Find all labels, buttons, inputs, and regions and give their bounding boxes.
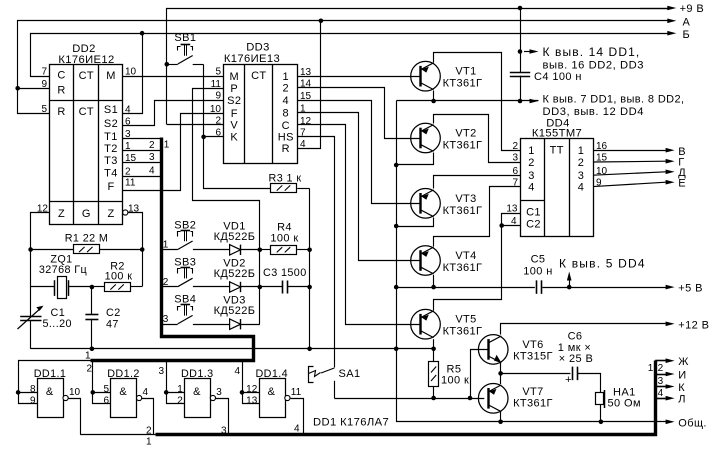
wire SB2 row left xyxy=(161,249,177,251)
label C1 xyxy=(51,307,66,319)
svg-text:+12 В: +12 В xyxy=(678,319,709,331)
label DD1.4 xyxy=(255,368,288,380)
svg-text:F: F xyxy=(107,181,114,193)
svg-text:10: 10 xyxy=(210,104,222,115)
wire VT6 emitter to VT7 xyxy=(500,363,502,384)
label SB1 xyxy=(174,32,196,44)
node C5 line join xyxy=(394,285,399,290)
svg-text:3: 3 xyxy=(216,387,222,398)
node C3 right xyxy=(307,285,312,290)
svg-text:C: C xyxy=(57,70,65,82)
svg-text:К176ИЕ13: К176ИЕ13 xyxy=(224,53,280,65)
arrow Общ output xyxy=(666,417,707,429)
svg-text:R3 1 к: R3 1 к xyxy=(269,173,302,185)
wire V net +9 to DD3.2 xyxy=(167,124,224,126)
wire К tap xyxy=(655,384,674,389)
transistor VT6 КТ315Г xyxy=(478,335,508,365)
svg-text:11: 11 xyxy=(291,387,302,398)
wire T3 to bus xyxy=(123,162,162,164)
label C1 5...20 xyxy=(43,318,72,330)
label VT1 xyxy=(455,66,476,78)
svg-text:5...20: 5...20 xyxy=(43,318,72,330)
label DD1.3 xyxy=(181,368,214,380)
capacitor C4 xyxy=(510,72,530,76)
pin DD2-3 xyxy=(125,129,131,140)
label VT6 xyxy=(522,339,543,351)
label к выв 7 line1 xyxy=(543,94,685,106)
svg-text:T4: T4 xyxy=(104,168,118,180)
pin DD3-5 xyxy=(215,67,221,78)
wire VT1 emitter to DD4 xyxy=(434,53,521,151)
svg-text:КТ361Г: КТ361Г xyxy=(443,205,483,217)
resistor R3 xyxy=(271,184,310,193)
wire base line R5-VT7 xyxy=(396,398,484,400)
svg-text:3: 3 xyxy=(163,314,169,325)
node R4 right xyxy=(307,248,312,253)
pin DD2-5 xyxy=(41,104,47,115)
wire SB4 row left xyxy=(161,324,177,326)
wire VD1 cathode xyxy=(241,249,260,251)
svg-text:КТ361Г: КТ361Г xyxy=(443,326,483,338)
label tap3 К xyxy=(658,376,664,387)
node A line to DD3 R xyxy=(319,19,324,24)
label DD2 xyxy=(72,43,96,55)
label DD3 left M P S2 F V K xyxy=(227,71,241,144)
pin DD1.3-3 xyxy=(216,387,222,398)
wire K net DD3.6 xyxy=(204,136,224,138)
svg-text:HS: HS xyxy=(278,131,294,143)
wire net B xyxy=(31,34,668,77)
label Ж xyxy=(678,356,689,368)
label bus tap 3 xyxy=(163,314,169,325)
svg-text:CT: CT xyxy=(251,70,266,82)
label tap 3 xyxy=(149,152,155,163)
svg-text:S2: S2 xyxy=(104,118,118,130)
wire к выв 5 arrow xyxy=(567,272,572,288)
wire VT5 collector xyxy=(433,339,435,349)
svg-text:Е: Е xyxy=(678,178,686,190)
label VD1 xyxy=(223,220,246,232)
svg-text:C1: C1 xyxy=(526,207,541,219)
pin DD1.2-5 xyxy=(103,384,109,395)
label Е xyxy=(678,178,686,190)
label VT4 КТ361Г xyxy=(443,262,483,274)
svg-text:С3 1500: С3 1500 xyxy=(263,267,307,279)
node R5 bottom xyxy=(431,396,436,401)
crystal ZQ1 xyxy=(31,277,92,299)
label К155ТМ7 xyxy=(532,128,582,140)
label VD3 xyxy=(223,295,246,307)
svg-text:7: 7 xyxy=(512,177,518,188)
svg-text:+: + xyxy=(565,374,572,386)
svg-text:КД522Б: КД522Б xyxy=(214,231,256,243)
svg-text:4: 4 xyxy=(294,424,300,435)
node VT4 collector xyxy=(431,285,436,290)
label out 1 xyxy=(146,437,152,448)
svg-text:11: 11 xyxy=(125,178,136,189)
svg-text:Ж: Ж xyxy=(678,356,689,368)
label HA1 50 Ом xyxy=(608,398,641,410)
wire DD1.4 input drop xyxy=(243,361,260,404)
pin DD2-10 xyxy=(125,67,137,78)
pin DD3-10 xyxy=(210,104,222,115)
gate DD1.3 box xyxy=(185,379,211,418)
wire R2 left xyxy=(92,286,104,288)
node crystal right xyxy=(90,285,95,290)
label 32768 Гц xyxy=(39,264,87,276)
capacitor C2 xyxy=(85,287,98,349)
wire VT2 collector xyxy=(397,153,434,165)
svg-text:3: 3 xyxy=(158,366,164,377)
label DD1.2 xyxy=(107,368,140,380)
wire DD1.3 output xyxy=(216,399,229,435)
svg-text:4: 4 xyxy=(528,181,535,193)
node +9V/C4 junction xyxy=(518,6,523,11)
label R4 xyxy=(277,222,292,234)
capacitor C6 xyxy=(573,367,578,381)
wire DD3.12 to VT5 base xyxy=(298,125,421,325)
node R1 left xyxy=(28,247,33,252)
label DD4 col3 1-4 xyxy=(578,145,585,193)
pin DD1.4-12 xyxy=(246,384,258,395)
svg-text:6: 6 xyxy=(512,166,518,177)
svg-text:КТ315Г: КТ315Г xyxy=(513,351,553,363)
svg-text:DD3, выв. 12 DD4: DD3, выв. 12 DD4 xyxy=(543,106,644,118)
svg-text:4: 4 xyxy=(578,181,585,193)
resistor R4 xyxy=(271,246,310,255)
svg-text:3: 3 xyxy=(578,170,585,182)
label DD1.4 & xyxy=(268,386,276,398)
pin DD3-6 xyxy=(215,128,221,139)
label к выв 14 line1 xyxy=(543,45,641,59)
wire VD2 cathode xyxy=(241,286,260,288)
resistor R5 xyxy=(429,349,439,398)
svg-text:R: R xyxy=(57,85,65,97)
node SB1 left contact xyxy=(165,62,170,67)
wire DD1.3 upper input xyxy=(166,392,185,394)
svg-text:12: 12 xyxy=(300,116,312,127)
svg-text:8: 8 xyxy=(283,107,290,119)
label bus tap 1 xyxy=(163,240,169,251)
svg-text:Л: Л xyxy=(678,393,686,405)
label Г xyxy=(678,157,684,169)
IC DD2 К176ИЕ12 box xyxy=(49,65,122,225)
wire DD4 C1 pin13 xyxy=(502,214,521,226)
arrow Б output xyxy=(667,29,690,41)
label DD4 C1 xyxy=(526,207,541,219)
svg-text:И: И xyxy=(678,369,686,381)
wire S1 net to B xyxy=(123,34,143,114)
svg-text:1: 1 xyxy=(578,145,585,157)
node K junction xyxy=(201,135,206,140)
wire VT7 collector xyxy=(500,412,502,422)
wire Ж tap xyxy=(655,358,674,363)
label R5 xyxy=(447,364,462,376)
pin DD2-12 xyxy=(37,204,49,215)
svg-text:1: 1 xyxy=(177,384,183,395)
svg-text:ТТ: ТТ xyxy=(550,145,564,157)
svg-text:5: 5 xyxy=(215,67,221,78)
svg-text:КТ361Г: КТ361Г xyxy=(443,262,483,274)
pin DD4-16 xyxy=(596,141,608,152)
label DD1.1 xyxy=(34,368,67,380)
capacitor C1 (trimmer) xyxy=(18,306,44,349)
svg-text:R: R xyxy=(57,106,65,118)
wire DD3.14 to VT2 base xyxy=(298,88,421,139)
sounder HA1 xyxy=(596,390,605,422)
svg-text:C: C xyxy=(282,120,290,132)
svg-text:2: 2 xyxy=(163,277,169,288)
wire VT4 collector xyxy=(433,275,435,287)
svg-text:2: 2 xyxy=(578,157,585,169)
svg-text:4: 4 xyxy=(143,387,149,398)
wire +12V line xyxy=(501,324,667,335)
svg-text:5: 5 xyxy=(103,384,109,395)
node VT1 collector xyxy=(431,99,436,104)
pin DD3-11 xyxy=(211,79,222,90)
label DD1.3 & xyxy=(193,386,201,398)
label tap 1 xyxy=(164,139,170,150)
wire C6 right xyxy=(578,374,601,393)
node DD1.1 pin8 xyxy=(16,390,21,395)
label tap 2 xyxy=(149,140,155,151)
svg-text:T3: T3 xyxy=(104,155,118,167)
node C1C2 junction xyxy=(499,223,504,228)
capacitor C5 xyxy=(537,280,542,294)
label DD2 CT top xyxy=(79,70,94,82)
label R3 1 к xyxy=(269,173,302,185)
arrow к выв.14 xyxy=(524,49,539,54)
label C5 xyxy=(531,254,546,266)
pin DD1.4-13 xyxy=(246,395,258,406)
label К176ИЕ13 xyxy=(224,53,280,65)
transistor VT7 КТ361Г xyxy=(478,384,508,414)
node VT3 collector join xyxy=(394,224,399,229)
label C6 25В xyxy=(559,353,594,365)
pin DD3-15 xyxy=(300,91,312,102)
transistor VT5 КТ361Г xyxy=(411,309,441,339)
label R2 xyxy=(110,260,125,272)
label SB2 xyxy=(174,219,196,231)
pin DD1.3-1 xyxy=(177,384,183,395)
label DD1.2 & xyxy=(119,386,127,398)
wire F net DD2.11-DD3.10 xyxy=(123,114,224,191)
svg-text:100 к: 100 к xyxy=(441,375,469,387)
resistor R2 xyxy=(105,283,143,292)
svg-text:CT: CT xyxy=(79,70,94,82)
svg-text:CT: CT xyxy=(79,106,94,118)
label VT1 КТ361Г xyxy=(443,78,483,90)
svg-text:SB1: SB1 xyxy=(174,32,196,44)
svg-text:+5 В: +5 В xyxy=(678,283,703,295)
wire DD3.7 HS to SA1 xyxy=(298,137,335,368)
label C6 plus xyxy=(565,374,572,386)
arrow А output xyxy=(667,16,690,28)
button SB3 xyxy=(178,268,193,287)
label wire 1 xyxy=(85,351,91,362)
arrow к выв.7 xyxy=(530,99,539,104)
svg-text:M: M xyxy=(230,71,240,83)
diode VD3 xyxy=(230,319,241,329)
button SB1 xyxy=(167,45,204,65)
pin DD4-2 xyxy=(512,141,518,152)
wire DD4 out Е xyxy=(593,180,675,187)
svg-text:А: А xyxy=(683,16,691,28)
svg-text:&: & xyxy=(46,386,54,398)
wire to DD1.1 inputs xyxy=(19,361,91,404)
svg-text:Б: Б xyxy=(683,29,691,41)
wire T2 to bus xyxy=(123,150,162,152)
svg-text:R: R xyxy=(282,143,290,155)
pin DD1.1-9 xyxy=(30,395,36,406)
wire +5V line xyxy=(543,287,667,289)
wire DD1.2 input drop xyxy=(93,361,111,404)
label wire 2 xyxy=(86,363,92,374)
pin DD1.2-6 xyxy=(103,395,109,406)
wire DD4 C2 pin4 xyxy=(502,225,521,227)
pin DD4-6 xyxy=(512,166,518,177)
svg-text:+9 В: +9 В xyxy=(680,3,705,15)
label DD1 К176ЛА7 xyxy=(313,417,389,429)
label к выв 14 line2 xyxy=(543,60,644,72)
node VD1 cathode xyxy=(258,248,263,253)
svg-text:9: 9 xyxy=(215,91,221,102)
svg-text:P: P xyxy=(230,83,238,95)
wire T4 to bus xyxy=(123,176,162,178)
resistor R1 xyxy=(74,245,143,254)
gate DD1.2 box xyxy=(111,379,137,418)
label R4 100 к xyxy=(270,232,298,244)
label ZQ1 xyxy=(50,254,72,266)
svg-text:12: 12 xyxy=(246,384,258,395)
node VD2 cathode xyxy=(258,285,263,290)
wire DD1.2 output xyxy=(142,399,154,435)
svg-text:4: 4 xyxy=(283,95,290,107)
svg-text:13: 13 xyxy=(246,395,258,406)
svg-text:2: 2 xyxy=(149,140,155,151)
label VT3 КТ361Г xyxy=(443,205,483,217)
svg-text:9: 9 xyxy=(30,395,36,406)
wire VT2 emitter xyxy=(434,115,521,163)
svg-text:&: & xyxy=(119,386,127,398)
wire DD1.2 upper input xyxy=(93,392,111,394)
transistor VT4 КТ361Г xyxy=(411,246,441,276)
svg-text:1: 1 xyxy=(163,240,169,251)
svg-text:выв. 16 DD2, DD3: выв. 16 DD2, DD3 xyxy=(543,60,644,72)
label к выв 7 line2 xyxy=(543,106,644,118)
label VT2 КТ361Г xyxy=(443,140,483,152)
svg-text:× 25 В: × 25 В xyxy=(559,353,594,365)
label Д xyxy=(678,167,686,179)
label tap 4 xyxy=(149,165,155,176)
pin DD4-10 xyxy=(596,166,608,177)
pin DD1.4 output bubble xyxy=(285,395,290,400)
label DD3 xyxy=(246,42,270,54)
svg-text:3: 3 xyxy=(221,426,227,437)
diode VD1 xyxy=(230,245,241,255)
label DD4 xyxy=(546,118,570,130)
svg-text:K: K xyxy=(230,132,238,144)
svg-text:2: 2 xyxy=(146,426,152,437)
diode VD2 xyxy=(230,282,241,292)
label C6 xyxy=(568,331,583,343)
arrow +5 В xyxy=(666,283,703,295)
wire DD4 out B xyxy=(593,148,675,153)
label C5 100 н xyxy=(523,266,552,278)
label DD2 S1 S2 T1-T4 F xyxy=(104,104,118,193)
switch SA1 xyxy=(309,367,335,399)
pin DD1.1-10 xyxy=(69,387,81,398)
node к выв 5 xyxy=(567,285,572,290)
label R2 100 к xyxy=(105,271,133,283)
svg-text:DD1.1: DD1.1 xyxy=(34,368,67,380)
node R1 right xyxy=(140,247,145,252)
svg-text:3: 3 xyxy=(528,170,535,182)
wire R1 left lead xyxy=(31,249,73,251)
node R3R4C3 column bottom xyxy=(307,347,312,352)
wire net A xyxy=(18,21,668,114)
wire output bus thin xyxy=(80,434,155,436)
wire VT3 emitter xyxy=(434,176,521,189)
label C6 1мк xyxy=(558,342,591,354)
svg-text:VT7: VT7 xyxy=(522,386,543,398)
label VD2 КД522Б xyxy=(214,268,256,280)
svg-text:&: & xyxy=(193,386,201,398)
wire DD2.13 right column xyxy=(128,213,143,287)
svg-text:DD1.4: DD1.4 xyxy=(255,368,288,380)
svg-text:5: 5 xyxy=(41,104,47,115)
svg-text:КД522Б: КД522Б xyxy=(214,305,256,317)
pin DD3-13 xyxy=(300,67,312,78)
pin DD1.3-2 xyxy=(177,395,183,406)
pin DD1.2-4 xyxy=(143,387,149,398)
wire SB2 to VD1 xyxy=(193,249,230,251)
node VT2 collector join xyxy=(394,163,399,168)
label К xyxy=(678,382,685,394)
pin DD2-11 xyxy=(125,178,136,189)
label Л xyxy=(678,393,686,405)
wire SB1/K/R3 vertical xyxy=(204,65,271,189)
svg-text:2: 2 xyxy=(528,157,535,169)
node VT6 base join xyxy=(468,396,473,401)
label DD3 right 1 2 4 8 C HS R xyxy=(278,71,294,155)
wire SB3 to VD2 xyxy=(193,286,230,288)
svg-text:VT3: VT3 xyxy=(455,193,476,205)
button SB2 xyxy=(178,231,193,250)
pin DD4-3 xyxy=(512,153,518,164)
wire VT6 base xyxy=(471,350,489,399)
svg-text:С6: С6 xyxy=(568,331,583,343)
label R5 100 к xyxy=(441,375,469,387)
svg-text:T2: T2 xyxy=(104,143,118,155)
node DD1.4 input xyxy=(240,390,245,395)
wire DD1.3 input drop xyxy=(167,361,185,404)
transistor VT1 КТ361Г xyxy=(411,61,441,91)
node B to S1 vertical xyxy=(140,31,145,36)
label wire 3 top xyxy=(158,366,164,377)
node HA1 join xyxy=(599,420,604,425)
wire DD1.4 output xyxy=(291,399,304,435)
svg-text:2: 2 xyxy=(215,116,221,127)
label out 2 xyxy=(146,426,152,437)
pin DD2-13 xyxy=(128,204,140,215)
label DD2 Z G Z xyxy=(58,208,115,220)
wire VT1 collector xyxy=(433,91,435,102)
svg-text:1: 1 xyxy=(146,437,152,448)
node A to DD2 pin 9 xyxy=(15,86,20,91)
label C2 xyxy=(106,307,121,319)
pin DD2-7 xyxy=(41,67,47,78)
